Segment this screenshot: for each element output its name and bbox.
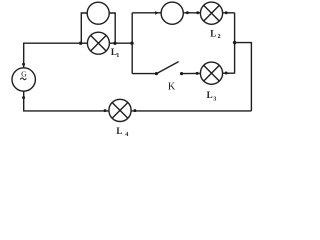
current arrow below generator <box>22 96 25 99</box>
wire switch K to lamp L3 <box>182 72 201 74</box>
meter M1 (plain circle) <box>87 2 109 24</box>
current arrow before lamp L3 <box>196 72 199 75</box>
wire lamp L3 to loop right vertical <box>223 72 235 74</box>
current arrow right of lamp L4 <box>133 109 136 112</box>
meter M2 (plain circle) <box>161 2 183 24</box>
wire lamp L2 to node B vertical <box>223 12 235 14</box>
wire generator top to left corner and across to node J1 <box>24 43 81 68</box>
label L1 <box>111 47 119 59</box>
label L2 <box>210 28 220 40</box>
current arrow before meter M2 <box>155 11 159 15</box>
wire meter M2 to lamp L2 <box>183 12 200 14</box>
current arrow after lamp L2 <box>225 11 228 14</box>
svg-text:L: L <box>210 28 216 38</box>
lamp L3 <box>200 62 222 84</box>
svg-text:G: G <box>21 69 27 78</box>
node J1 <box>79 42 82 45</box>
lamp L2 <box>200 2 222 24</box>
node A <box>130 42 133 45</box>
wire loop right vertical <box>234 13 236 74</box>
lamp L1 <box>87 32 109 54</box>
current arrow after meter M2 <box>186 11 189 14</box>
svg-text:4: 4 <box>125 131 128 138</box>
svg-text:L: L <box>207 90 213 100</box>
label L4 <box>116 126 128 138</box>
label L3 <box>207 90 217 103</box>
wire loop left vertical <box>131 13 133 74</box>
wire J2 to node A <box>109 42 132 44</box>
svg-text:2: 2 <box>218 33 221 40</box>
wire stub left up to meter M1 <box>81 13 87 43</box>
current arrow left of lamp L4 <box>104 109 107 112</box>
node B <box>233 41 236 44</box>
current arrow after lamp L3 <box>225 72 228 75</box>
node J2 <box>113 42 116 45</box>
current arrow above generator <box>22 63 25 66</box>
wire lamp L4 to bottom left corner and up to generator bottom <box>24 91 109 111</box>
svg-text:3: 3 <box>213 96 216 103</box>
wire top branch: node A vertical top to meter M2 <box>132 12 161 14</box>
generator G <box>12 68 35 91</box>
svg-text:L: L <box>116 126 122 136</box>
svg-text:K: K <box>168 81 176 92</box>
svg-text:1: 1 <box>116 52 119 59</box>
wire node B to right edge and down to bottom right corner <box>235 43 252 111</box>
wire J1 to lamp L1 <box>81 42 88 44</box>
wire bottom branch: node A vertical to switch K <box>132 73 156 75</box>
current arrow before lamp L2 <box>196 11 199 14</box>
wire bottom right segment to lamp L4 <box>131 110 251 112</box>
lamp L4 <box>109 99 131 121</box>
switch K <box>155 62 183 76</box>
wire stub right from meter M1 down to node J2 <box>109 13 115 43</box>
